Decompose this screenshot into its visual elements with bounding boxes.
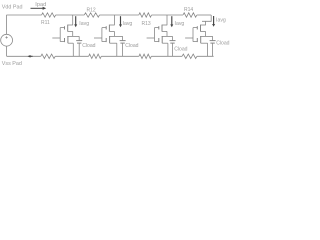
wire Vdd rail segment 1 xyxy=(6,14,41,16)
wire Vdd rail segment 4 xyxy=(152,14,184,16)
pmos M3P xyxy=(162,24,167,26)
wire Vss rail segment 5 xyxy=(197,55,214,57)
wire stage 4 source drop xyxy=(205,21,207,25)
wire stage 3 cap to Vss rail xyxy=(172,43,174,56)
wire stage 3 source from Vdd rail xyxy=(166,15,168,25)
wire stage 4 gate xyxy=(192,28,194,42)
resistor R12 xyxy=(84,13,99,17)
nmos M4N xyxy=(200,36,202,43)
Ipad arrow xyxy=(31,7,43,9)
voltage source V1 xyxy=(1,34,13,46)
wire stage 4 drain to output xyxy=(205,31,207,36)
svg-text:R14: R14 xyxy=(184,7,193,13)
wire stage 4 rail jog xyxy=(202,15,211,21)
wire stage 1 nmos source to Vss rail xyxy=(72,43,74,56)
nmos M1N xyxy=(67,36,69,43)
svg-text:Iavg: Iavg xyxy=(123,21,133,27)
wire stage 4 cap to Vss rail xyxy=(212,43,214,56)
resistor R23 xyxy=(139,54,151,58)
wire stage 1 input stub xyxy=(52,37,60,39)
wire Vss rail segment 2 xyxy=(55,55,88,57)
current arrow Iavg stage 2 xyxy=(120,16,122,24)
wire stage 3 input stub xyxy=(147,37,155,39)
wire stage 2 source from Vdd rail xyxy=(113,15,115,25)
wire stage 1 gate xyxy=(59,28,61,42)
resistor R24 xyxy=(182,54,197,58)
wire Vdd rail segment 3 xyxy=(100,14,139,16)
current arrow Iavg stage 1 xyxy=(75,16,77,24)
wire stage 2 gate xyxy=(101,28,103,42)
wire Vss rail segment 3 xyxy=(101,55,139,57)
wire stage 3 output node xyxy=(162,35,173,37)
wire Vss pad drop xyxy=(6,46,8,56)
svg-text:R11: R11 xyxy=(41,20,50,26)
resistor R13 xyxy=(139,13,152,17)
wire stage 4 nmos source to Vss rail xyxy=(207,43,209,56)
svg-text:Vdd Pad: Vdd Pad xyxy=(2,5,23,11)
wire stage 2 input stub xyxy=(94,37,102,39)
svg-text:R13: R13 xyxy=(142,21,151,27)
svg-text:Iavg: Iavg xyxy=(79,21,89,27)
wire Vss rail segment 4 xyxy=(151,55,182,57)
wire stage 3 drain to output xyxy=(166,31,168,36)
svg-text:Iavg: Iavg xyxy=(216,18,226,24)
nmos M3N xyxy=(161,36,163,43)
wire Vdd pad drop xyxy=(6,15,8,34)
wire Vss rail segment 1 xyxy=(7,55,41,57)
wire stage 4 output node xyxy=(200,35,213,37)
current arrow Iavg stage 4 xyxy=(213,16,215,24)
current arrow Iavg stage 3 xyxy=(171,16,173,24)
resistor R21 xyxy=(41,54,55,58)
wire stage 3 nmos source to Vss rail xyxy=(167,43,169,56)
svg-text:Vss Pad: Vss Pad xyxy=(2,61,22,67)
wire stage 3 gate xyxy=(154,28,156,42)
svg-text:Cload: Cload xyxy=(216,40,229,46)
capacitor Cload stage 3 xyxy=(172,36,174,40)
resistor R14 xyxy=(183,13,197,17)
nmos M2N xyxy=(109,36,111,43)
resistor R22 xyxy=(89,54,102,58)
wire stage 1 drain to output xyxy=(72,31,74,36)
pmos M1P xyxy=(68,24,73,26)
capacitor Cload stage 1 xyxy=(78,36,80,40)
resistor R11 xyxy=(42,13,56,17)
pmos M4P xyxy=(201,24,206,26)
svg-text:Iavg: Iavg xyxy=(175,21,185,27)
wire Vdd rail segment 2 xyxy=(56,14,85,16)
polarity plus xyxy=(5,36,7,38)
svg-text:Ipad: Ipad xyxy=(35,2,46,8)
svg-text:Cload: Cload xyxy=(174,46,187,52)
capacitor Cload stage 4 xyxy=(212,36,214,40)
capacitor Cload stage 2 xyxy=(122,36,124,40)
wire stage 2 cap to Vss rail xyxy=(122,43,124,56)
svg-text:R12: R12 xyxy=(87,7,96,13)
wire stage 1 cap to Vss rail xyxy=(78,43,80,56)
return current arrow xyxy=(30,55,32,57)
wire stage 1 output node xyxy=(67,35,79,37)
wire stage 2 drain to output xyxy=(113,31,115,36)
wire Vdd rail segment 5 xyxy=(197,14,211,16)
svg-text:Cload: Cload xyxy=(82,43,95,49)
pmos M2P xyxy=(109,24,114,26)
wire stage 2 output node xyxy=(109,35,123,37)
svg-text:Cload: Cload xyxy=(125,43,138,49)
wire stage 4 input stub xyxy=(185,37,193,39)
wire stage 1 source from Vdd rail xyxy=(72,15,74,25)
wire stage 2 nmos source to Vss rail xyxy=(116,43,118,56)
